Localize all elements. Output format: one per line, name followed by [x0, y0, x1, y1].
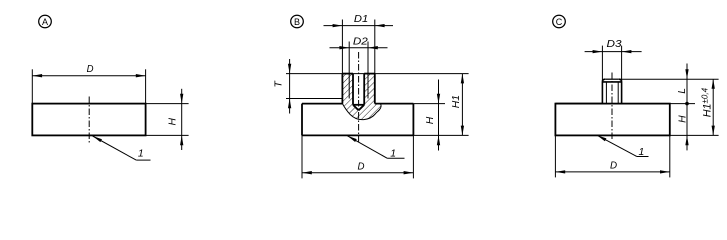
svg-text:D: D: [358, 162, 365, 173]
view C dimension L and H chain: [677, 64, 689, 151]
svg-text:D1: D1: [354, 14, 368, 25]
view B dimension H: [413, 80, 468, 151]
svg-text:L: L: [677, 88, 688, 94]
view A label circle: [39, 15, 52, 28]
view C stud top extension line: [619, 78, 718, 80]
svg-text:D2: D2: [353, 36, 368, 47]
view B threaded hole: [349, 42, 368, 111]
view B boss walls: [342, 74, 374, 104]
view A leader 1: [93, 136, 151, 160]
svg-text:1: 1: [390, 149, 396, 160]
view A dimension D: [32, 64, 145, 104]
view A plate outline: [32, 104, 145, 136]
svg-text:H: H: [425, 116, 436, 124]
svg-text:C: C: [556, 17, 563, 27]
svg-text:H: H: [678, 115, 689, 123]
svg-text:D: D: [87, 64, 94, 75]
svg-text:1: 1: [138, 149, 144, 160]
view C leader 1: [597, 135, 649, 158]
svg-text:T: T: [274, 80, 285, 87]
view B dimension D2: [330, 36, 388, 49]
view B plate outline: [302, 104, 413, 136]
view C label circle: [553, 15, 566, 28]
svg-text:H1: H1: [451, 95, 462, 108]
view C plate bottom extension line: [670, 134, 719, 136]
svg-text:D: D: [610, 160, 618, 171]
view B break-out wavy line: [342, 104, 381, 120]
view B leader 1: [347, 136, 404, 160]
view B boss top extension line: [286, 73, 469, 75]
view C plate outline: [555, 104, 669, 136]
view B dimension H1: [451, 74, 464, 136]
view C dimension H1 with tolerance: [701, 79, 715, 135]
svg-text:B: B: [294, 17, 300, 27]
view C plate top extension line: [670, 103, 695, 105]
view B label circle: [291, 15, 304, 28]
svg-text:H: H: [168, 117, 179, 125]
view B dimension D: [302, 135, 413, 178]
view A dimension H: [146, 89, 189, 150]
view A centerline: [88, 97, 90, 143]
view C centerline: [611, 73, 613, 140]
view B dimension T: [274, 59, 343, 114]
view B centerline: [358, 52, 360, 142]
svg-text:D3: D3: [607, 39, 622, 50]
view B dimension D1: [324, 14, 394, 74]
view B section hatching: [342, 74, 381, 120]
view C dimension D: [555, 135, 669, 177]
svg-text:1: 1: [639, 147, 645, 158]
view C stud: [602, 79, 621, 103]
view C dimension D3: [585, 39, 642, 81]
svg-text:A: A: [42, 17, 48, 27]
